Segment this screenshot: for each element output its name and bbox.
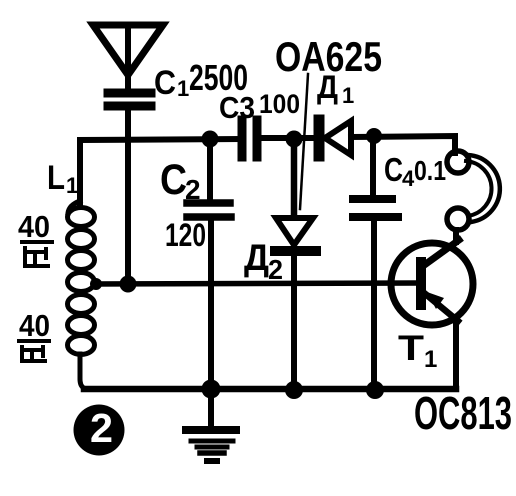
wire bottom rail [84, 386, 456, 393]
svg-text:C: C [154, 64, 176, 102]
svg-text:120: 120 [165, 217, 206, 253]
wire emitter to bottom rail [453, 320, 459, 389]
node junction ground/bottom [202, 380, 221, 399]
diode D2 [275, 218, 316, 251]
label C2 value 120 [165, 217, 206, 253]
wire D2 branch lower [291, 251, 297, 390]
svg-text:Д: Д [244, 237, 269, 278]
node junction D2/bottom [285, 381, 303, 399]
svg-text:1: 1 [177, 76, 189, 101]
node junction antenna/tap [120, 276, 137, 293]
label L1 bottom winding 40 turns [19, 308, 50, 343]
wire D1 to top-right corner [351, 136, 455, 153]
node junction D2/rail [286, 131, 303, 148]
svg-text:2: 2 [268, 254, 283, 285]
capacitor C4 [353, 199, 398, 217]
svg-text:C: C [160, 156, 187, 204]
label T1 type OC813 [414, 387, 512, 439]
label D1 type OA625 [275, 33, 382, 80]
node junction C4/bottom [366, 381, 384, 399]
node junction C4/rail [366, 128, 382, 144]
diode D1 [319, 120, 351, 156]
label L1 top winding 40 turns [18, 209, 50, 244]
wire C2 branch lower [208, 217, 214, 389]
node tap junction on coil [90, 278, 102, 290]
label L1 [47, 159, 78, 198]
ground [186, 389, 236, 461]
capacitor C3 [242, 120, 257, 157]
transistor T1 [391, 240, 473, 325]
wire phones to collector [453, 230, 459, 242]
label C1 value 2500 [154, 57, 248, 102]
label C2 [160, 156, 201, 205]
wire C4 branch upper [370, 137, 376, 197]
label D1 leader line [300, 74, 308, 209]
svg-text:0.1: 0.1 [414, 155, 446, 186]
label C3 value 100 [259, 89, 300, 119]
svg-text:2: 2 [90, 405, 113, 451]
wire rail C3 to D1 [257, 135, 314, 141]
wire C2 branch upper [207, 139, 213, 200]
inductor L1 [68, 201, 95, 389]
label D1 [317, 69, 354, 108]
label T1 [398, 329, 437, 373]
capacitor C2 [187, 203, 231, 217]
antenna [93, 25, 163, 88]
node junction C2/rail [202, 131, 219, 148]
svg-text:2: 2 [185, 174, 201, 205]
capacitor C1 [108, 93, 151, 106]
wire base tap [94, 283, 417, 284]
figure number 2 [74, 405, 125, 456]
svg-text:1: 1 [66, 173, 78, 198]
svg-text:T: T [398, 329, 424, 368]
svg-text:1: 1 [424, 346, 437, 373]
wire C1 to tap junction [125, 106, 131, 284]
svg-text:OC813: OC813 [414, 387, 512, 439]
wire D2 branch upper [291, 139, 298, 217]
headphones [447, 151, 500, 230]
label C4 value 0.1 [384, 151, 446, 191]
svg-text:1: 1 [342, 83, 354, 108]
svg-text:C: C [384, 151, 403, 188]
wire L1 top to rail corner [80, 139, 240, 205]
label D2 [244, 237, 283, 285]
label C3 [219, 90, 255, 125]
svg-text:40: 40 [19, 308, 50, 343]
wire C4 branch lower [371, 217, 377, 390]
svg-text:40: 40 [18, 209, 50, 244]
svg-text:C3: C3 [219, 90, 255, 125]
svg-text:L: L [47, 159, 65, 197]
svg-text:OA625: OA625 [275, 33, 382, 80]
svg-text:100: 100 [259, 89, 300, 119]
